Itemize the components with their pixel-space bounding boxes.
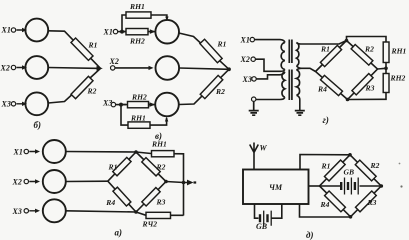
svg-text:б): б) [34,120,42,130]
meter circle 3 [155,93,179,117]
wire RH1 to junction [385,63,387,74]
resistor RH2 [126,29,148,35]
resistor R2 [200,75,223,98]
junction dot bridge right [164,180,168,184]
svg-text:RН1: RН1 [391,47,407,56]
node junction dot [227,67,231,71]
battery GB bridge wires [320,185,382,187]
svg-text:R1: R1 [108,163,118,172]
scan speck [399,163,401,165]
svg-text:R2: R2 [370,161,380,170]
junction dot [119,103,123,107]
svg-text:RЧ2: RЧ2 [142,220,158,229]
bridge diamond wires [320,155,382,217]
primary winding A [281,43,285,70]
svg-text:R2: R2 [364,45,374,54]
svg-text:RН1: RН1 [130,114,146,123]
terminal X2 [111,66,115,70]
wire row2 to bridge left [66,180,108,182]
svg-text:RН2: RН2 [390,74,406,83]
wire bottom terminal to primary B bottom [256,97,285,99]
resistor R2 bridge [142,158,160,176]
svg-text:R4: R4 [105,198,115,207]
generator circle 2 [43,170,66,193]
svg-text:Х1: Х1 [240,36,250,45]
arrow into generator 1 [17,28,28,32]
terminal X2 [24,179,28,183]
svg-text:RН2: RН2 [131,93,147,102]
wire row3 to bridge bottom [66,211,136,212]
svg-text:R4: R4 [320,200,330,209]
wire straight branch RH2 lower [121,104,155,106]
svg-text:Х2: Х2 [0,64,10,73]
svg-text:Х3: Х3 [242,75,252,84]
wire X2 staircase to primary A bottom [255,59,284,71]
svg-text:W: W [260,144,268,153]
resistor R4 bridge [320,75,342,95]
wire meter2 to node [179,68,229,69]
svg-text:R1: R1 [217,40,227,49]
bottom rail to bridge [300,204,351,217]
resistor R2 bridge [355,160,376,181]
arrow into generator 1 [29,149,40,153]
svg-text:Х3: Х3 [102,99,112,108]
terminal X3 [11,102,15,106]
resistor R1 bridge [320,45,341,66]
svg-text:Х3: Х3 [12,207,22,216]
arrow into generator 3 [29,209,40,213]
output arrow [187,180,196,186]
wire RH2 to bridge bottom [348,93,387,100]
generator circle 1 [25,19,48,42]
terminal X2 [11,65,15,69]
node junction arrow [97,66,103,71]
arrow into meter left [150,29,156,34]
wire node to R2 to meter3 [179,69,229,104]
terminal X1 [24,149,28,153]
battery GB stub right [271,204,282,218]
terminal X3 [24,209,28,213]
junction dot top [348,153,352,157]
svg-text:R4: R4 [317,85,327,94]
resistor R4 bridge [325,191,346,212]
junction dot bridge top [345,39,349,43]
secondary winding C [297,43,299,66]
wire secondary C top to bridge top [297,41,347,45]
transformer core [289,40,292,101]
resistor RH1 lower [128,122,150,128]
resistor RH2 lower [128,102,149,108]
svg-text:Х2: Х2 [12,178,22,187]
wire secondary D bottom to ground [297,95,300,110]
bridge diamond wires [108,152,166,212]
wire X2 to meter2 with arrow [115,67,151,69]
resistor R3 bridge [352,74,373,95]
resistor RH1 [126,12,151,18]
junction dot bridge top [134,150,138,154]
ground at bottom terminal [249,101,259,115]
wire bridge right to output [166,182,188,183]
junction dot RH [384,67,388,71]
wire X3 junction [116,104,126,106]
resistor R1 bridge [113,157,131,175]
battery GB cells [260,214,268,222]
arrow into meter3 left [150,102,156,107]
wire bridge top to RH1 [347,37,387,43]
wire X1 junction [118,31,127,33]
resistor R4 bridge [113,187,131,206]
wire straight branch RH2 [122,31,155,33]
svg-text:д): д) [306,230,313,240]
terminal X1 [113,29,117,33]
svg-text:Х2: Х2 [240,55,250,64]
svg-text:Х2: Х2 [109,57,119,66]
resistor RH1 horizontal [152,151,175,157]
svg-text:а): а) [115,228,123,238]
svg-text:R1: R1 [320,45,330,54]
wire secondary mid to bridge left [297,66,316,72]
arrow into meter top [165,17,168,22]
scan speck [400,185,402,187]
junction dot right [380,184,384,188]
wire X3 staircase to primary B top [256,72,285,79]
svg-text:Х1: Х1 [103,28,113,37]
battery GB bridge cells [341,182,355,190]
wire bridge right to RH junction [378,67,387,70]
generator circle 1 [43,140,66,163]
junction dot [120,30,124,34]
arrow into generator 3 [17,102,28,106]
terminal X3 [252,77,256,81]
svg-text:R2: R2 [215,87,225,96]
svg-text:Х3: Х3 [1,100,11,109]
generator circle 3 [25,92,48,115]
wire meter1 to R1 [179,33,229,69]
primary winding B [282,72,285,98]
svg-text:R2: R2 [87,87,97,96]
junction dot bottom [349,215,353,219]
svg-text:RН2: RН2 [129,37,145,46]
bottom rail with RH2 [136,212,184,215]
svg-text:Х1: Х1 [13,148,23,157]
top rail with RH1 [136,152,184,216]
wire row3 to R2 diagonal [48,68,100,103]
resistor R3 bridge [356,191,377,212]
wire row2 to node [48,67,100,70]
svg-text:RН1: RН1 [129,2,145,11]
secondary winding D [297,70,300,95]
battery GB stub left [255,204,259,218]
meter circle 1 [155,20,179,44]
antenna [250,143,259,170]
ground at secondary [295,111,305,116]
resistor R1 bridge [324,160,345,181]
resistor RH2 horizontal [146,212,171,218]
svg-text:R1: R1 [88,41,98,50]
resistor R2 bridge [351,44,373,65]
svg-text:GВ: GВ [344,168,355,177]
resistor R1 [71,38,93,60]
junction dot bridge bottom [346,98,350,102]
wire X1 to primary A [255,40,285,43]
svg-text:ЧМ: ЧМ [269,183,283,192]
wire row1 to R1 diagonal [48,31,100,69]
svg-text:г): г) [323,115,329,125]
terminal X3 [111,102,115,106]
svg-text:R3: R3 [367,198,377,207]
bridge wires diamond [316,41,378,100]
mid wire to bridge left [309,185,320,187]
top rail to bridge [300,155,350,170]
resistor RH2 vertical [383,74,389,93]
svg-text:R2: R2 [156,163,166,172]
meter circle 2 [156,56,180,80]
junction dot bridge bottom [134,210,138,214]
arrow into meter3 bottom [165,117,168,122]
svg-text:R3: R3 [365,84,375,93]
terminal X1 [11,28,15,32]
wire row1 to bridge top [66,151,136,154]
wire lower branch RH1 [121,105,167,126]
terminal X1 [250,37,254,41]
svg-text:R1: R1 [321,162,331,171]
FM box [243,170,309,205]
bottom terminal [252,97,256,101]
svg-text:GВ: GВ [256,222,268,231]
generator circle 3 [43,199,66,222]
wire upper branch RH1 [122,15,167,32]
resistor R2 [71,76,93,98]
resistor R1 [200,39,222,62]
arrow into generator 2 [17,65,28,69]
svg-text:Х1: Х1 [1,26,11,35]
svg-text:RН1: RН1 [151,140,167,149]
junction dot output [182,181,186,185]
resistor R3 bridge [142,188,160,206]
generator circle 2 [25,56,48,79]
resistor RH1 vertical [383,42,389,63]
terminal X2 [251,57,255,61]
arrow into generator 2 [29,179,40,183]
svg-text:R3: R3 [156,198,166,207]
